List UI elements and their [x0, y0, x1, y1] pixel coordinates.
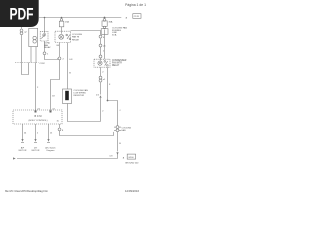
fuse F1 symbol (in fuse block) — [33, 36, 36, 39]
pin tick BCM pin 1 — [35, 110, 37, 112]
wire: to BCM pin 1 — [35, 63, 37, 111]
svg-text:GROUND 200: GROUND 200 — [125, 163, 139, 165]
resistor R1 element — [65, 91, 69, 100]
wire: fan to ground — [117, 132, 119, 151]
wire: relay K2 coil ground leg — [59, 43, 61, 57]
svg-text:PDF: PDF — [9, 6, 33, 24]
connector C7 — [99, 76, 102, 79]
wire: main right feed down — [104, 30, 106, 60]
ground bus G200 — [17, 158, 118, 160]
svg-text:15A: 15A — [65, 20, 69, 23]
svg-text:RESISTOR: RESISTOR — [74, 95, 85, 97]
connector C9 — [58, 128, 61, 131]
svg-text:12/09/2016: 12/09/2016 — [125, 189, 139, 193]
PDF badge — [0, 0, 39, 27]
hot-at-all-times reference box — [133, 14, 141, 19]
junction block on main feed — [101, 29, 108, 35]
wire: relay K1 output — [44, 41, 46, 52]
wire: branch to cooling fan — [108, 101, 118, 126]
wire: relay K2 output to resistor — [67, 43, 69, 90]
wire: fuse block bottom pin a — [30, 47, 32, 63]
svg-text:MOTOR: MOTOR — [19, 150, 27, 152]
wire: relay K3 output — [107, 67, 109, 100]
node: junction at fuse F3 tap — [104, 17, 106, 19]
fuse block box — [29, 28, 38, 46]
BCM module dashed outline — [13, 110, 62, 124]
wire: relay K1 output jog to relay K2 pin — [45, 55, 58, 60]
svg-text:RELAY: RELAY — [44, 46, 51, 49]
wire: continue down — [100, 82, 102, 94]
svg-text:C128: C128 — [134, 16, 140, 18]
connector C1 (in-line, left column) — [20, 29, 23, 32]
svg-text:30A: 30A — [109, 20, 113, 23]
relay K1 dashed outline — [40, 32, 48, 41]
wire: fuse block bottom pin b — [35, 47, 37, 63]
terminal arrow on coil leg — [99, 95, 101, 98]
relay K2 coil — [59, 34, 64, 39]
connector line C202 (dashed) — [15, 62, 39, 64]
svg-text:FAN: FAN — [122, 129, 127, 132]
relay K2 contact — [66, 34, 68, 36]
resistor R1 box — [63, 89, 72, 104]
fuse F2 — [60, 19, 62, 21]
svg-text:Diagram: Diagram — [47, 149, 55, 152]
relay K1 contact — [43, 34, 45, 36]
svg-text:G200: G200 — [128, 157, 134, 159]
wire: BCM right pin — [59, 124, 61, 128]
svg-text:FAN HI: FAN HI — [72, 36, 79, 39]
svg-text:Página 1 de 1: Página 1 de 1 — [125, 3, 146, 7]
pin tick BCM pin 2 — [50, 110, 52, 112]
wire: relay K2 contact feed from bus — [71, 31, 101, 35]
relay K3 coil — [98, 61, 102, 65]
svg-text:J: J — [119, 110, 120, 112]
svg-text:MOTOR: MOTOR — [32, 150, 40, 152]
relay K3 dashed outline — [94, 59, 110, 67]
svg-text:COOLING: COOLING — [72, 34, 82, 36]
wire: to connector C6 — [100, 47, 102, 55]
connector C3 — [99, 35, 102, 38]
wire: down to corner — [100, 98, 102, 122]
wire: relay K3 coil leg down — [100, 67, 102, 76]
svg-text:RELAY: RELAY — [112, 64, 120, 67]
wire: fuse F2 to relay K2 coil — [61, 27, 63, 34]
wire: coil leg to BCM pin — [51, 60, 60, 110]
terminal arrow stub 1 — [21, 139, 23, 142]
node: junction at relay K1 drop — [44, 17, 46, 19]
svg-text:C202: C202 — [40, 63, 46, 65]
connector C5 — [99, 44, 102, 47]
ground bus left arrow — [13, 157, 16, 159]
wire: connector drop to relay K3 coil — [100, 38, 102, 44]
connector C6 — [99, 55, 102, 58]
connector C8 side ticks — [114, 126, 116, 128]
svg-text:(BODY CONTROL): (BODY CONTROL) — [29, 120, 48, 122]
node: junction at fuse F2 tap — [61, 17, 63, 19]
relay K2 dashed outline — [55, 31, 71, 42]
wire: into relay K3 — [100, 58, 102, 61]
wire: left battery drop below PDF badge — [21, 27, 23, 29]
svg-text:30 A: 30 A — [112, 34, 117, 37]
connector C8 (cooling fan) — [116, 126, 119, 129]
wire: resistor output down — [68, 104, 101, 122]
svg-text:FAN MTR: FAN MTR — [112, 62, 122, 65]
svg-text:RELAY: RELAY — [72, 39, 80, 42]
node: junction to fan branch — [107, 100, 109, 102]
wire: left column down to connector line — [21, 35, 23, 63]
wire: to ground bus — [117, 154, 119, 158]
relay K3 contact — [104, 61, 106, 63]
wire: top hot feed bus — [39, 17, 121, 19]
terminal arrow stub 3 — [47, 139, 49, 142]
wire: drop to relay K1 contact — [44, 18, 46, 34]
wire: BCM bottom stub 3 — [48, 124, 50, 139]
wire: BCM bottom stub 2 — [35, 124, 37, 139]
terminal arrow stub 2 — [34, 139, 36, 142]
terminal arrow at ground — [116, 152, 118, 155]
fuse F3 — [103, 19, 106, 22]
connector C4 — [58, 57, 61, 60]
wire: jumper loop — [22, 63, 29, 75]
wire: BCM right pin to fan branch — [60, 131, 114, 136]
connector C2 on relay K1 output — [43, 52, 46, 55]
ground reference box — [127, 154, 135, 159]
wire: BCM bottom stub 1 — [22, 124, 24, 139]
svg-text:B C M: B C M — [35, 115, 42, 118]
svg-text:file:///C:/Users/PC/Desktop/di: file:///C:/Users/PC/Desktop/diag.htm — [5, 189, 49, 193]
